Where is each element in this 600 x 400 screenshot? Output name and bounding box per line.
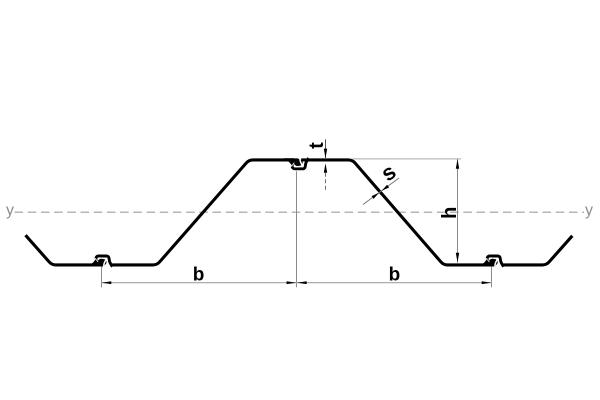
dimension h extension line top [353,158,462,160]
svg-text:b: b [193,265,205,286]
dimension b extension line left [101,267,103,288]
dimension t arrow down [324,149,327,159]
dimension s leader line [363,178,399,205]
svg-text:t: t [306,142,328,149]
dimension b extension line center [296,171,298,287]
dimension h arrow up [456,159,459,169]
wire sheet-pile profile outline [26,160,573,265]
dimension b arrow center-left [287,281,297,284]
dimension t extension line upper [325,139,327,158]
wire y-y dashed centerline [15,211,585,213]
dimension h arrow down [456,253,459,263]
dimension b arrow far-left [102,281,112,284]
dimension h line [457,159,459,263]
dimension b extension line right [491,267,493,288]
dimension s arrow lower [372,193,379,199]
dimension b line [102,282,492,284]
dimension t arrow up [324,163,327,173]
svg-text:y: y [585,202,593,219]
interlock clutch top-center (mirrored) [298,158,301,162]
dimension b arrow far-right [482,281,492,284]
dimension s arrow upper [382,185,389,191]
dimension b arrow center-right [297,281,307,284]
interlock clutch bottom-left [105,263,112,267]
interlock clutch bottom-right [496,263,503,267]
svg-text:b: b [389,265,401,286]
svg-text:h: h [439,207,461,219]
dimension t extension line lower [325,173,327,190]
svg-text:y: y [6,202,14,219]
